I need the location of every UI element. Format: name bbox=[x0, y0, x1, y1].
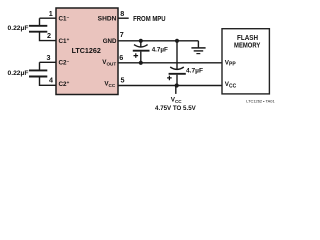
junction GND/C3 bbox=[139, 39, 143, 43]
IC U1 LTC1262 bbox=[56, 8, 118, 95]
wire VCC net (pin5 to flash VCC) bbox=[118, 85, 222, 87]
svg-text:5: 5 bbox=[121, 76, 125, 85]
wire pin1 to C1 cap bbox=[40, 18, 57, 25]
svg-text:FROM MPU: FROM MPU bbox=[133, 14, 166, 23]
capacitor C1 0.22uF bbox=[29, 26, 47, 32]
svg-text:7: 7 bbox=[120, 30, 124, 39]
svg-text:0.22µF: 0.22µF bbox=[8, 25, 29, 32]
junction VOUT/C3 bbox=[139, 61, 143, 65]
svg-text:6: 6 bbox=[119, 53, 123, 62]
svg-text:2: 2 bbox=[47, 31, 51, 40]
ground symbol bbox=[191, 41, 205, 54]
capacitor C4 4.7uF (GND to VCC, polarized) bbox=[169, 41, 186, 86]
junction GND/C4 bbox=[175, 39, 179, 43]
svg-text:GND: GND bbox=[103, 38, 117, 45]
wire pin3 to C2 cap bbox=[40, 62, 57, 70]
wire pin8 SHDN stub bbox=[118, 17, 129, 19]
svg-text:LTC1262 • TA01: LTC1262 • TA01 bbox=[246, 98, 275, 103]
svg-text:LTC1262: LTC1262 bbox=[72, 48, 101, 55]
wire C1 cap to pin2 bbox=[40, 32, 57, 40]
flash memory box bbox=[222, 29, 269, 94]
plus sign C4 bbox=[167, 76, 172, 81]
svg-text:4.7µF: 4.7µF bbox=[152, 46, 168, 53]
svg-text:FLASH: FLASH bbox=[237, 35, 258, 42]
svg-text:4.75V TO 5.5V: 4.75V TO 5.5V bbox=[155, 105, 196, 112]
capacitor C3 4.7uF (GND to VOUT, polarized) bbox=[133, 41, 150, 63]
plus sign C3 bbox=[134, 53, 139, 58]
svg-text:8: 8 bbox=[120, 9, 124, 18]
wire VOUT net (pin6 to flash VPP) bbox=[118, 62, 222, 64]
svg-text:SHDN: SHDN bbox=[98, 16, 117, 23]
wire GND net (pin7 to ground) bbox=[118, 40, 198, 42]
svg-text:3: 3 bbox=[47, 53, 51, 62]
svg-text:4.7µF: 4.7µF bbox=[186, 68, 203, 75]
svg-text:0.22µF: 0.22µF bbox=[8, 70, 29, 77]
junction VCC/C4 bbox=[175, 83, 179, 87]
svg-text:MEMORY: MEMORY bbox=[234, 42, 261, 49]
svg-text:1: 1 bbox=[49, 9, 53, 18]
capacitor C2 0.22uF bbox=[29, 70, 47, 76]
wire C2 cap to pin4 bbox=[40, 77, 57, 85]
svg-text:4: 4 bbox=[49, 75, 53, 84]
svg-text:VCC: VCC bbox=[171, 97, 183, 104]
wire VCC supply stub bbox=[175, 86, 177, 94]
